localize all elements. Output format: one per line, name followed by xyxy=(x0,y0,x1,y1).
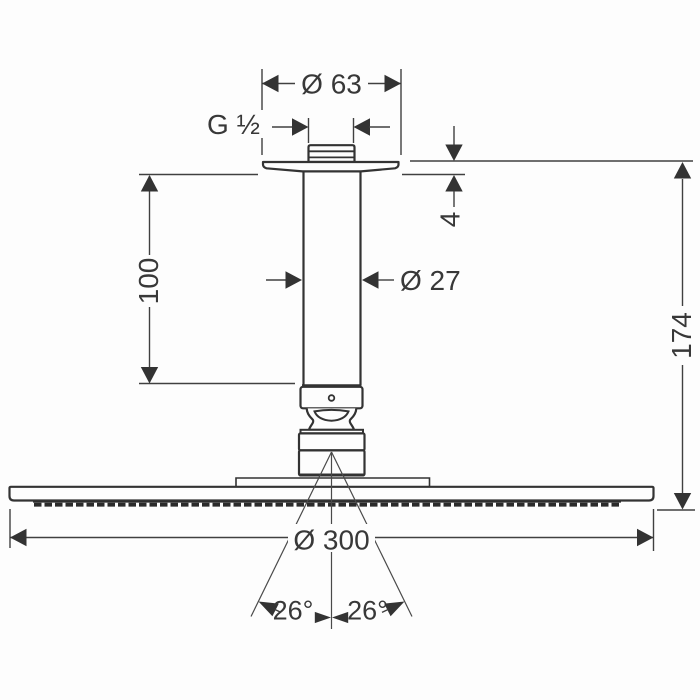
dimension 4 arrow down xyxy=(445,145,462,162)
nozzle strip dashes row 1 xyxy=(34,503,621,507)
dimension Ø27 right tail xyxy=(378,279,394,281)
dimension G1/2 label xyxy=(207,109,260,140)
svg-text:Ø 300: Ø 300 xyxy=(293,525,369,556)
svg-text:174: 174 xyxy=(666,312,697,359)
svg-text:G ½: G ½ xyxy=(207,109,260,140)
dimension Ø27 right arrow xyxy=(362,271,379,288)
dimension 100 bottom extension line xyxy=(139,383,295,385)
dimension 174 arrow down xyxy=(674,493,691,510)
swivel collar xyxy=(301,387,363,409)
spray left line xyxy=(251,452,332,617)
dimension Ø27 left arrow xyxy=(286,271,303,288)
dimension Ø27 label xyxy=(400,265,461,296)
dimension 4 upper tail xyxy=(453,126,455,146)
dimension G1/2 left tail xyxy=(272,126,293,128)
threaded nipple G1/2 xyxy=(309,145,355,162)
dimension Ø63 extension line right xyxy=(400,69,402,155)
dimension Ø300 extension line left xyxy=(9,509,11,548)
dimension Ø63 extension line left xyxy=(261,69,263,155)
dimension 4 label xyxy=(435,212,466,228)
dimension Ø63 arrow right xyxy=(385,75,402,92)
pipe end cap line xyxy=(302,384,362,387)
dimension Ø300 label xyxy=(288,524,375,556)
svg-text:4: 4 xyxy=(435,212,466,228)
svg-text:Ø 63: Ø 63 xyxy=(301,69,362,100)
ball joint xyxy=(307,408,357,430)
dimension 174 bottom extension line xyxy=(657,509,695,511)
dimension G1/2 right tail xyxy=(369,126,390,128)
dimension Ø300 line right segment xyxy=(374,537,654,539)
dimension 4 lower tail xyxy=(453,191,455,207)
dimension Ø63 line right segment xyxy=(368,83,401,85)
dimension 174 arrow up xyxy=(674,162,691,179)
dimension 4 lower reference line xyxy=(402,174,465,176)
spray right line xyxy=(332,452,413,617)
dimension 100 arrow up xyxy=(141,175,158,192)
angle 26 left label xyxy=(273,596,314,626)
dimension Ø300 line left segment xyxy=(10,537,290,539)
dimension 100 label xyxy=(133,258,164,305)
dimension G1/2 extension line left xyxy=(308,118,310,143)
shower plate xyxy=(10,487,654,501)
dimension Ø300 extension line right xyxy=(653,509,655,551)
dimension 100 top extension line xyxy=(139,174,258,176)
svg-text:26°: 26° xyxy=(273,596,314,626)
ceiling escutcheon plate xyxy=(263,162,399,171)
dimension 4 arrow up xyxy=(445,175,462,192)
raised platform on plate xyxy=(236,478,430,486)
angle 26 right label xyxy=(347,596,388,626)
angle 26 left inner arrow xyxy=(315,612,331,623)
shower arm pipe body xyxy=(304,168,361,385)
dimension Ø63 line left segment xyxy=(262,83,295,85)
nozzle strip top line xyxy=(33,501,621,503)
angle 26 left outer arrow xyxy=(259,602,282,617)
dimension Ø300 arrow right xyxy=(637,529,654,546)
dimension 174 line upper segment xyxy=(682,179,684,306)
dimension G1/2 extension line right xyxy=(353,118,355,143)
spray center line xyxy=(331,452,333,629)
dimension Ø63 label xyxy=(301,69,362,100)
head lower box xyxy=(299,450,365,475)
collar pivot hole xyxy=(329,395,335,401)
ball joint sphere xyxy=(315,410,349,421)
dimension G1/2 right arrow xyxy=(354,118,371,135)
dimension 100 line lower segment xyxy=(149,307,151,382)
dimension Ø300 arrow left xyxy=(10,529,27,546)
dimension 174 label xyxy=(666,312,697,359)
svg-text:100: 100 xyxy=(133,258,164,305)
dimension 100 line upper segment xyxy=(149,176,151,255)
head lower box thick base xyxy=(300,474,364,477)
svg-text:26°: 26° xyxy=(347,596,388,626)
dimension Ø27 left tail xyxy=(266,279,286,281)
head upper box xyxy=(299,433,365,450)
angle 26 right outer arrow xyxy=(382,602,405,617)
dimension Ø63 arrow left xyxy=(262,75,279,92)
dimension 100 arrow down xyxy=(141,367,158,384)
ceiling reference line xyxy=(410,160,693,162)
dimension G1/2 left arrow xyxy=(292,118,309,135)
head flange strip xyxy=(301,430,364,434)
svg-text:Ø 27: Ø 27 xyxy=(400,265,461,296)
dimension 174 line lower segment xyxy=(682,365,684,508)
angle 26 right inner arrow xyxy=(332,612,348,623)
